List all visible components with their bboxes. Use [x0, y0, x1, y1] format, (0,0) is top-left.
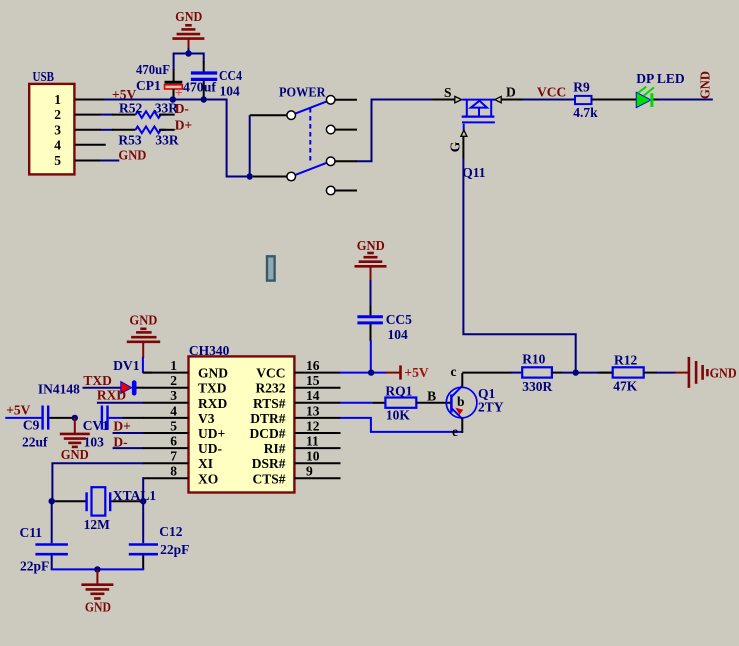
capacitor CC4 104 — [183, 68, 242, 100]
diode DV1 IN4148 (pin2 TXD) — [38, 381, 144, 396]
wire GND to chip pin1 — [143, 357, 152, 373]
ground GND top — [172, 9, 204, 51]
svg-text:R9: R9 — [573, 80, 590, 95]
svg-text:VCC: VCC — [256, 366, 285, 381]
wire VCC (MOSFET D to R9) — [523, 99, 575, 101]
svg-text:3: 3 — [170, 388, 177, 403]
resistor RQ1 10K — [340, 383, 451, 422]
net label D- (chip pin6) — [113, 435, 144, 450]
switch POWER — [250, 85, 357, 195]
capacitor C9 22uf — [5, 406, 75, 450]
transistor Q1 2TY (PNP) — [446, 364, 503, 439]
svg-text:GND: GND — [118, 147, 146, 162]
svg-text:D+: D+ — [113, 419, 130, 434]
svg-text:VCC: VCC — [537, 85, 566, 100]
svg-text:11: 11 — [306, 434, 319, 449]
svg-text:22pF: 22pF — [20, 559, 49, 574]
svg-text:GND: GND — [698, 71, 713, 99]
svg-text:RQ1: RQ1 — [385, 383, 412, 398]
resistor R9 4.7k — [573, 80, 636, 121]
svg-text:1: 1 — [54, 92, 61, 107]
connector USB — [29, 69, 106, 174]
svg-text:GND: GND — [710, 366, 737, 381]
net label D+ (chip pin5) — [113, 419, 144, 434]
svg-text:C12: C12 — [159, 524, 182, 539]
svg-text:3: 3 — [54, 122, 61, 137]
wire pin13 DTR# to Q1 emitter — [340, 418, 462, 432]
svg-text:470uF: 470uF — [136, 62, 170, 77]
marker artifact — [267, 256, 275, 280]
node pin16/CC5 junction — [368, 369, 374, 375]
svg-text:R53: R53 — [118, 132, 141, 147]
svg-text:10: 10 — [306, 449, 320, 464]
capacitor CC5 104 — [357, 280, 412, 373]
svg-text:2: 2 — [54, 107, 61, 122]
ground GND (above CC5) — [355, 238, 387, 281]
svg-text:DP LED: DP LED — [636, 71, 685, 86]
svg-text:5: 5 — [170, 418, 177, 433]
svg-text:CP1: CP1 — [136, 78, 161, 93]
svg-text:+: + — [175, 85, 183, 100]
svg-text:+5V: +5V — [6, 403, 30, 418]
crystal XTAL1 12M — [52, 487, 157, 532]
svg-text:4.7k: 4.7k — [573, 105, 598, 120]
wire pin7 XI to crystal left — [52, 463, 143, 501]
svg-text:R232: R232 — [256, 381, 286, 396]
svg-text:C9: C9 — [23, 418, 40, 433]
svg-text:DTR#: DTR# — [250, 411, 286, 426]
resistor R10 330R — [522, 352, 613, 394]
svg-text:GND: GND — [357, 238, 385, 253]
svg-text:470uf: 470uf — [183, 80, 217, 95]
wire +5V rail (USB pin1 to POWER switch) — [104, 100, 250, 177]
svg-text:e: e — [452, 424, 458, 439]
svg-text:10K: 10K — [386, 408, 411, 423]
node crystal right junction — [140, 498, 146, 504]
net label GND (USB pin5) — [100, 147, 147, 162]
svg-text:+5V: +5V — [404, 365, 428, 380]
svg-text:16: 16 — [306, 358, 320, 373]
svg-text:S: S — [444, 85, 452, 100]
svg-text:XO: XO — [198, 471, 218, 486]
ground GND (chip pin1) — [127, 313, 160, 358]
wire LED to GND label — [658, 99, 713, 101]
svg-text:1: 1 — [170, 358, 177, 373]
svg-text:DV1: DV1 — [113, 358, 140, 373]
svg-text:22uf: 22uf — [22, 434, 48, 449]
svg-text:4: 4 — [54, 137, 61, 152]
wire GND top to CP1/CC4 tops — [174, 48, 204, 82]
svg-text:R10: R10 — [522, 352, 545, 367]
svg-text:CC4: CC4 — [219, 68, 242, 83]
resistor R53 33R (USB pin3 to D+) — [100, 127, 179, 148]
svg-text:CC5: CC5 — [386, 312, 412, 327]
node CC4 bottom junction — [201, 96, 207, 102]
svg-text:IN4148: IN4148 — [38, 381, 80, 396]
svg-text:103: 103 — [84, 434, 105, 449]
LED DP — [636, 71, 685, 108]
svg-text:G: G — [448, 141, 463, 152]
power +5V (pin16) — [386, 365, 429, 380]
svg-text:RXD: RXD — [97, 387, 126, 402]
svg-text:c: c — [451, 364, 457, 379]
node R10/R12/gate junction — [573, 369, 579, 375]
wire pin16 VCC to +5V — [340, 372, 387, 374]
svg-text:13: 13 — [306, 403, 320, 418]
svg-text:R12: R12 — [614, 353, 637, 368]
net label RXD — [97, 387, 144, 403]
node +5V/switch junction — [247, 173, 253, 179]
wire switch throw to VCC rail — [356, 100, 434, 162]
svg-text:D: D — [506, 85, 516, 100]
svg-text:D-: D- — [175, 101, 189, 116]
svg-text:CV1: CV1 — [83, 418, 109, 433]
svg-text:4: 4 — [170, 403, 177, 418]
svg-text:GND: GND — [175, 9, 202, 24]
svg-text:Q11: Q11 — [462, 165, 486, 180]
svg-text:8: 8 — [170, 464, 177, 479]
svg-text:GND: GND — [85, 599, 111, 614]
svg-text:33R: 33R — [155, 132, 179, 147]
svg-text:GND: GND — [129, 313, 157, 328]
svg-text:104: 104 — [220, 84, 241, 99]
svg-text:C11: C11 — [20, 525, 43, 540]
svg-text:GND: GND — [198, 366, 228, 381]
node GND/CP1/CC4 junction — [185, 50, 191, 56]
svg-text:RI#: RI# — [264, 441, 286, 456]
svg-text:RTS#: RTS# — [253, 396, 286, 411]
svg-text:UD+: UD+ — [198, 426, 225, 441]
wire C11/C12 bottoms — [51, 568, 145, 570]
svg-text:330R: 330R — [522, 379, 552, 394]
svg-text:5: 5 — [54, 153, 61, 168]
svg-text:DCD#: DCD# — [250, 426, 286, 441]
svg-text:POWER: POWER — [279, 85, 326, 100]
capacitor CP1 470uF — [136, 62, 183, 100]
svg-text:B: B — [427, 388, 436, 403]
svg-text:RXD: RXD — [198, 396, 227, 411]
svg-text:22pF: 22pF — [160, 542, 189, 557]
svg-text:15: 15 — [306, 373, 320, 388]
wire Q1 collector to R10 — [462, 372, 512, 374]
svg-text:6: 6 — [170, 434, 177, 449]
node bottom GND junction — [94, 566, 100, 572]
ground GND (bottom) — [81, 569, 113, 614]
resistor R12 47K — [598, 353, 676, 394]
svg-text:TXD: TXD — [198, 381, 227, 396]
svg-text:12M: 12M — [84, 517, 111, 532]
svg-text:UD-: UD- — [198, 441, 222, 456]
svg-text:V3: V3 — [198, 411, 215, 426]
wire pin8 XO to crystal right — [142, 478, 144, 501]
svg-text:2: 2 — [170, 373, 177, 388]
svg-text:R52: R52 — [119, 101, 142, 116]
power ground GND (right of R12) — [675, 357, 737, 388]
transistor Q11 (P-MOSFET) — [433, 85, 525, 181]
capacitor C12 22pF — [129, 500, 190, 569]
svg-text:USB: USB — [33, 69, 55, 84]
wire Q11 gate to R10/R12 junction — [463, 158, 575, 373]
svg-text:14: 14 — [306, 388, 320, 403]
node C9/CV1/GND junction — [72, 415, 78, 421]
svg-text:12: 12 — [306, 418, 320, 433]
IC U1 CH340 — [143, 343, 341, 493]
svg-text:9: 9 — [306, 464, 313, 479]
capacitor C11 22pF — [20, 500, 68, 574]
svg-text:2TY: 2TY — [478, 400, 504, 415]
svg-text:TXD: TXD — [83, 373, 112, 388]
svg-text:b: b — [457, 394, 465, 409]
svg-text:D+: D+ — [175, 118, 192, 133]
capacitor CV1 103 — [83, 406, 144, 450]
svg-text:DSR#: DSR# — [252, 456, 286, 471]
svg-text:CTS#: CTS# — [252, 471, 285, 486]
svg-text:104: 104 — [388, 327, 409, 342]
resistor R52 33R (USB pin2 to D-) — [100, 101, 178, 118]
svg-text:XI: XI — [198, 456, 213, 471]
node crystal left junction — [49, 498, 55, 504]
svg-text:47K: 47K — [613, 379, 638, 394]
svg-text:7: 7 — [170, 449, 177, 464]
node CP1 bottom junction — [170, 96, 176, 102]
svg-text:XTAL1: XTAL1 — [113, 488, 157, 503]
ground GND (below C9 junction) — [60, 418, 90, 462]
